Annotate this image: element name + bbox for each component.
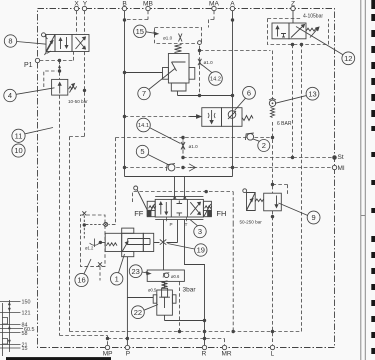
svg-text:P1: P1 xyxy=(24,62,33,69)
balloon 15 xyxy=(134,25,158,37)
box valve3 dashed xyxy=(133,192,234,224)
junction dot B-MB xyxy=(123,18,126,21)
solenoid of V8 xyxy=(45,35,56,56)
item 16 pilot insert internals xyxy=(82,211,107,266)
port MP xyxy=(105,345,109,349)
dimension tick 21 xyxy=(0,344,21,346)
junction dot A-MI xyxy=(231,166,234,169)
wire MB to B dashed xyxy=(126,11,149,20)
item 7 cartridge body xyxy=(163,54,195,92)
wire y137 dashed xyxy=(109,138,273,225)
svg-text:1: 1 xyxy=(115,274,119,283)
dimension tick 60.5 xyxy=(0,328,23,330)
check valve item 5 xyxy=(166,164,175,171)
right solenoid of V3 xyxy=(203,201,211,216)
port P xyxy=(125,345,129,349)
port X xyxy=(74,6,78,10)
wire Z left drain dashed xyxy=(292,45,294,158)
wire drain manifold y331 dashed xyxy=(70,45,302,332)
wire MI line dashed xyxy=(125,167,333,169)
svg-text:A: A xyxy=(230,1,235,8)
junction dot orifice141 MI xyxy=(181,166,184,169)
junction dot drain-R338 xyxy=(203,337,206,340)
svg-text:23: 23 xyxy=(132,267,140,276)
svg-text:7: 7 xyxy=(142,89,146,98)
item 13 check relief xyxy=(269,98,276,117)
port Z xyxy=(291,6,295,10)
svg-text:T: T xyxy=(185,222,188,227)
svg-text:X: X xyxy=(74,1,79,8)
port P1 xyxy=(35,58,39,62)
balloon 8 xyxy=(4,35,46,47)
wire B line vertical xyxy=(124,11,126,177)
svg-text:8: 8 xyxy=(8,37,12,46)
svg-text:16: 16 xyxy=(77,276,85,285)
junction dot item1 left xyxy=(99,241,102,244)
balloon 7 xyxy=(138,69,175,100)
left solenoid of V3 xyxy=(147,201,156,216)
wire B-A bottom horizontal xyxy=(125,176,233,178)
wire valve3 box right down dashed xyxy=(232,223,234,332)
balloon 12 xyxy=(296,27,355,65)
svg-text:121: 121 xyxy=(22,311,31,317)
junction dot Z right xyxy=(300,43,303,46)
svg-text:ø1.0: ø1.0 xyxy=(204,60,214,65)
svg-text:10: 10 xyxy=(14,146,22,155)
balloon 10 xyxy=(12,144,25,157)
junction dot Y line xyxy=(83,89,86,92)
svg-text:6 BAR: 6 BAR xyxy=(277,121,292,127)
junction dot B-valve6 feed xyxy=(123,115,126,118)
junction dot drain-233 xyxy=(232,330,235,333)
svg-text:4: 4 xyxy=(8,91,12,100)
FF port box xyxy=(147,210,155,216)
dimension tick 58 xyxy=(0,332,21,334)
svg-text:5: 5 xyxy=(140,147,144,156)
svg-text:13: 13 xyxy=(308,89,316,98)
wire MA to pilot box dashed xyxy=(209,11,215,28)
wire P1 branch to valve4 xyxy=(58,61,61,80)
wire vent15 to orifice142 dashed xyxy=(199,46,201,96)
svg-text:2: 2 xyxy=(262,141,266,150)
balloon 9 xyxy=(279,203,321,224)
wire y338 dashed xyxy=(108,339,225,346)
svg-text:ø0.5: ø0.5 xyxy=(148,287,157,292)
item 15 pilot orifice symbol xyxy=(179,34,183,42)
svg-text:6: 6 xyxy=(247,88,251,97)
wire item1 right to restrictor xyxy=(154,220,178,243)
wire P line vertical xyxy=(126,257,128,346)
valve V8 solenoid pilot valve body xyxy=(55,35,89,52)
junction dot orifice141 bottom xyxy=(181,156,184,159)
dimension tick 150 xyxy=(0,301,21,303)
wire valve6 feed dashed xyxy=(125,116,190,118)
svg-text:P: P xyxy=(126,351,130,358)
box item15 dashed xyxy=(155,28,202,44)
svg-text:150: 150 xyxy=(22,300,31,306)
svg-text:15: 15 xyxy=(136,27,144,36)
wire item13 to item9 dashed xyxy=(272,122,274,345)
balloon 3 xyxy=(190,220,206,238)
wire P feed to valve3 xyxy=(174,177,176,200)
valve3 top stubs xyxy=(174,196,187,198)
dimension tick 121 xyxy=(0,312,21,314)
vent circle item15 xyxy=(198,41,202,45)
orifice 14.1 symbol xyxy=(181,141,185,150)
port R xyxy=(202,345,206,349)
junction dot item9 top xyxy=(271,183,274,186)
dimension tick 84 xyxy=(0,324,21,326)
wire orifice141 link xyxy=(182,137,184,158)
restrictor X item19 xyxy=(160,240,167,245)
junction dot orifice141 top xyxy=(181,136,184,139)
wire item22 drain to R line xyxy=(165,315,205,320)
wire P to item22 xyxy=(127,297,153,299)
balloon 11 xyxy=(12,128,53,143)
svg-text:MR: MR xyxy=(221,351,231,358)
dimension tick 15 xyxy=(0,347,21,349)
svg-text:10-50 bar: 10-50 bar xyxy=(68,99,88,104)
svg-text:B: B xyxy=(122,1,127,8)
wire valve4 drain to MP dashed xyxy=(60,95,108,345)
bottom black bar xyxy=(6,357,111,360)
svg-text:4-105bar: 4-105bar xyxy=(303,14,323,20)
svg-text:MP: MP xyxy=(103,351,113,358)
check valve item 2 xyxy=(245,133,253,140)
svg-text:MB: MB xyxy=(143,1,153,8)
svg-text:R: R xyxy=(202,351,207,358)
wire Z stub xyxy=(292,11,294,23)
balloon 16 xyxy=(75,259,91,287)
svg-text:14.2: 14.2 xyxy=(210,77,221,83)
wire item1 left stub xyxy=(100,242,105,244)
junction dot B-item7 xyxy=(123,71,126,74)
right black dashed column xyxy=(371,0,375,354)
svg-text:FH: FH xyxy=(216,209,226,218)
valve V12 unloading xyxy=(272,23,306,39)
port L xyxy=(270,345,274,349)
svg-text:ø1.0: ø1.0 xyxy=(163,36,173,41)
valve3 bottom stubs xyxy=(167,217,187,221)
dimension bracket lower xyxy=(2,339,8,345)
wire Y drain dashed xyxy=(70,52,85,332)
valve V4 pressure reducing xyxy=(52,79,77,95)
wire St line dashed xyxy=(183,157,333,159)
port MR xyxy=(222,345,226,349)
balloon 6 xyxy=(235,86,256,110)
balloon 13 xyxy=(275,87,319,103)
balloon 22 xyxy=(132,305,159,319)
svg-text:3: 3 xyxy=(198,227,202,236)
wire valve3 work port to item23 xyxy=(163,220,165,270)
balloon 14.2 xyxy=(202,65,223,86)
item 9 pilot relief body xyxy=(255,193,281,211)
junction dot A top xyxy=(231,18,234,21)
svg-text:ø1.0: ø1.0 xyxy=(189,144,199,149)
wire item16 drain dashed xyxy=(99,266,101,280)
svg-text:58: 58 xyxy=(22,331,28,337)
dimension bracket upper xyxy=(2,318,8,325)
junction dot drain-272 xyxy=(271,330,274,333)
bracket item9 pilot dashed xyxy=(273,185,288,197)
junction dot 137-272 xyxy=(271,136,274,139)
junction dot P1 branch xyxy=(58,59,61,62)
box valve12 dashed xyxy=(268,19,329,45)
spring of V12 xyxy=(306,27,319,38)
balloon 1 xyxy=(111,254,125,285)
balloon 14.1 xyxy=(137,118,181,143)
svg-text:P: P xyxy=(169,222,172,227)
dimension arrows on ladder xyxy=(8,302,10,343)
junction dot A-item7 xyxy=(231,94,234,97)
wire item7 outlet to A xyxy=(178,91,233,96)
svg-text:50-250 bar: 50-250 bar xyxy=(240,219,263,224)
solenoid of item 9 xyxy=(243,189,255,211)
port MA xyxy=(212,6,216,10)
wire X pilot dashed xyxy=(76,11,78,35)
svg-text:19: 19 xyxy=(197,246,205,255)
svg-text:MA: MA xyxy=(209,1,219,8)
wire Y pilot dashed xyxy=(84,11,86,35)
valve V3 proportional main body xyxy=(155,197,203,220)
dimension ladder vertical lines xyxy=(3,300,10,356)
svg-text:ø1.2: ø1.2 xyxy=(85,246,94,251)
svg-text:Y: Y xyxy=(83,1,88,8)
svg-text:14.1: 14.1 xyxy=(138,123,149,129)
port MB xyxy=(146,6,150,10)
wire y50 dashed xyxy=(200,51,273,100)
balloon 5 xyxy=(136,145,168,164)
junction dot item9 bottom xyxy=(271,215,274,218)
orifice 14.2 symbol xyxy=(198,59,202,66)
spring of V6 xyxy=(242,116,253,121)
svg-text:Z: Z xyxy=(291,1,295,8)
wire item23 to item22 xyxy=(164,282,166,289)
port A xyxy=(230,6,234,10)
svg-text:MI: MI xyxy=(338,165,345,172)
svg-text:FF: FF xyxy=(134,209,144,218)
svg-text:15: 15 xyxy=(22,346,28,352)
wire T feed to valve3 xyxy=(184,177,186,200)
box item16 dashed xyxy=(81,215,106,266)
frame border dash-dot xyxy=(38,9,335,348)
item 7 spring xyxy=(175,45,182,53)
junction dot vent15 xyxy=(198,49,201,52)
svg-text:12: 12 xyxy=(344,54,352,63)
FH port box xyxy=(203,210,211,216)
junction dot Z-St xyxy=(291,156,294,159)
balloon 23 xyxy=(129,265,150,278)
svg-text:ø0.6: ø0.6 xyxy=(171,274,180,279)
junction dot B-MI xyxy=(123,166,126,169)
svg-text:3bar: 3bar xyxy=(183,287,197,294)
junction dot Z left xyxy=(291,43,294,46)
arrow into V6 xyxy=(190,115,202,118)
wire valve3 T to R port xyxy=(185,220,205,346)
junction dot orifice142-item7 xyxy=(198,94,201,97)
port B xyxy=(122,6,126,10)
svg-text:11: 11 xyxy=(15,131,23,140)
junction dot item16 inner xyxy=(83,223,86,226)
valve V6 counterbalance body xyxy=(202,108,242,127)
svg-text:9: 9 xyxy=(312,213,316,222)
item 23 shuttle block xyxy=(147,270,184,281)
wire A line vertical xyxy=(232,11,234,177)
balloon 19 xyxy=(168,244,208,257)
vent circle V8 xyxy=(42,33,48,39)
port MI xyxy=(332,165,336,169)
wire item7 inlet from B xyxy=(125,72,163,74)
junction dot valve4 top xyxy=(58,69,61,72)
svg-text:L: L xyxy=(270,351,274,358)
junction dot P338 xyxy=(126,337,129,340)
port Y xyxy=(82,6,86,10)
item 1 compensator body xyxy=(105,228,154,257)
svg-text:22: 22 xyxy=(134,308,142,317)
svg-text:St: St xyxy=(338,154,344,161)
vent circle above FF xyxy=(134,186,148,211)
right page edge lines xyxy=(361,0,366,360)
bracket valve4 dashed xyxy=(44,71,57,87)
wire item22 drain dashed xyxy=(179,282,181,332)
balloon 4 xyxy=(4,88,55,102)
wire P1 line dashed xyxy=(40,52,74,61)
junction dot item22 drain xyxy=(178,330,181,333)
balloon 2 xyxy=(253,139,270,152)
item 22 reducing cartridge xyxy=(153,281,176,315)
flow arrow MI line xyxy=(189,164,196,171)
port St xyxy=(333,156,337,160)
junction dot drain-R321 xyxy=(203,319,206,322)
junction dot MP338 xyxy=(106,337,109,340)
junction dot valve3 box top xyxy=(205,190,208,193)
junction dot drain-R331 xyxy=(203,330,206,333)
